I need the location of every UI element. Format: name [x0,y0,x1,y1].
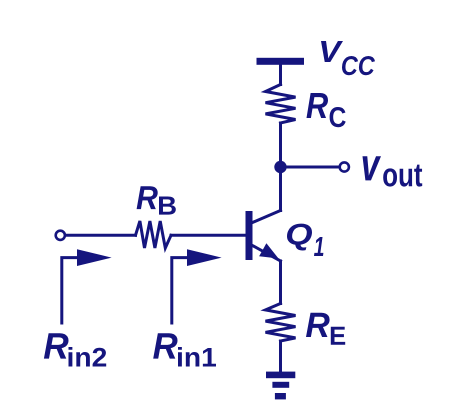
label RC: C subscript [330,107,346,127]
label RB: R [137,186,158,209]
wire RB to base [171,234,246,237]
transistor Q1 emitter lead [253,246,281,262]
Rin1 arrow wire [172,258,188,323]
wire emitter to RE [279,261,282,304]
transistor Q1 emitter arrowhead [259,243,278,258]
label Rin1: R [153,333,177,358]
wire RE to ground [279,341,282,372]
Vcc supply bar [257,58,305,65]
node collector-output junction [274,161,286,173]
ground bar 3 [275,393,286,399]
label Vcc: V [321,41,343,62]
resistor RC [266,85,296,124]
transistor Q1 base bar [246,211,253,260]
label RB: B subscript [159,197,176,215]
label RC: R [307,93,329,118]
label RE: R [306,313,330,337]
label vout: v [363,156,382,180]
ground bar 2 [272,382,289,388]
label Vcc: CC subscript [342,56,375,75]
Rin2 arrowhead [77,249,112,266]
label Rin2: R [44,333,69,358]
Rin2 arrow wire [62,258,78,323]
label RE: E subscript [331,327,345,345]
wire Vcc bar to Rc [279,65,282,85]
transistor Q1 collector lead [253,211,281,223]
resistor RB [136,221,172,248]
Rin1 arrowhead [187,249,222,266]
ground bar 1 [266,372,295,379]
wire input to RB [66,234,136,237]
label Rin2: in2 subscript [69,347,107,367]
label Q1: Q [287,224,312,251]
wire node to vout terminal [281,166,340,169]
label Rin1: in1 subscript [178,347,216,367]
wire Rc to collector [279,123,282,211]
resistor RE [266,304,296,342]
label Q1: 1 subscript [314,237,323,256]
input terminal [56,231,65,240]
label vout: out subscript [383,165,422,187]
vout terminal [340,162,349,171]
